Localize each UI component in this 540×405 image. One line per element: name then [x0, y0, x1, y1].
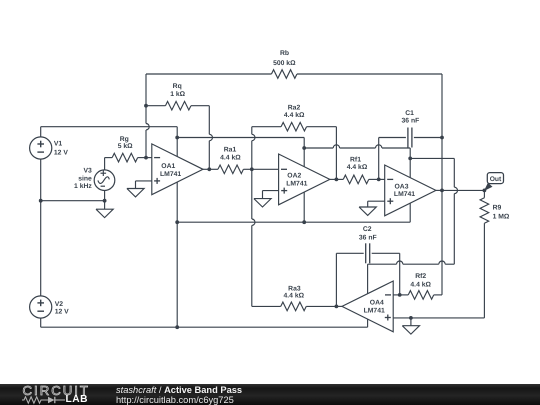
svg-text:Rf1: Rf1 [350, 156, 361, 163]
node V1-V2 junction [39, 199, 43, 203]
wire Ra2 right [307, 127, 337, 180]
svg-text:12 V: 12 V [55, 309, 69, 316]
svg-text:OA4: OA4 [370, 300, 384, 307]
hop V+ vertical over OA3 output [454, 187, 457, 193]
resistor Ra2 [281, 122, 307, 131]
svg-text:V3: V3 [83, 167, 92, 174]
wire to OA3 - input [379, 178, 385, 180]
wire V1 corner down [176, 127, 178, 138]
resistor Rf2 [408, 291, 434, 300]
wire Ra1 right [243, 168, 251, 170]
label V2 [55, 301, 69, 316]
label OA2 [286, 173, 307, 188]
hop wire B over C1 vertical [376, 145, 382, 148]
node OA2 output [335, 178, 339, 182]
footer bar [0, 384, 540, 405]
op-amp OA2 [279, 154, 330, 205]
hop Ra2 vertical over wire A [252, 134, 255, 140]
ground OA1 [127, 189, 144, 197]
resistor Rb [271, 70, 297, 79]
resistor R9 [480, 198, 489, 224]
wire C1 left vertical [379, 138, 406, 180]
svg-text:Rq: Rq [173, 83, 182, 90]
svg-text:36 nF: 36 nF [359, 234, 377, 241]
wire OA3 output [436, 189, 485, 191]
svg-text:Rg: Rg [120, 136, 129, 143]
hop V+ run over Rf2 vertical [439, 261, 445, 264]
node OA2 inverting input [250, 167, 254, 171]
label Rf2 [410, 273, 431, 289]
svg-text:C1: C1 [405, 110, 414, 117]
svg-text:36 nF: 36 nF [402, 118, 420, 125]
wire OA3 V+ stub [409, 158, 411, 177]
svg-text:LM741: LM741 [394, 191, 415, 198]
wire OA2 + input to ground [263, 191, 279, 199]
wire B corner down [409, 148, 411, 158]
node OA1 inverting input [144, 156, 148, 160]
voltage source V1 [30, 137, 52, 159]
OA4 input signs [385, 295, 391, 321]
svg-text:5 kΩ: 5 kΩ [118, 143, 133, 150]
wire top rail (Rb net) [146, 73, 442, 75]
wire R9 bottom [483, 223, 485, 318]
svg-text:Ra2: Ra2 [288, 104, 301, 111]
node Out [483, 189, 487, 193]
wire Ra3 right [306, 305, 336, 307]
label Ra1 [220, 147, 241, 162]
wire OA3 + input to ground [368, 201, 385, 207]
label Rg [118, 136, 133, 150]
svg-text:LM741: LM741 [364, 308, 385, 315]
svg-text:4.4 kΩ: 4.4 kΩ [220, 155, 241, 162]
ground OA4 [402, 326, 419, 334]
svg-text:Ra1: Ra1 [224, 147, 237, 154]
wire Ra2 left vertical [251, 127, 253, 170]
wire V+ right vertical [453, 158, 455, 264]
wire Rf2 right [434, 294, 442, 296]
svg-text:LM741: LM741 [160, 171, 181, 178]
label OA4 [364, 300, 385, 315]
svg-text:4.4 kΩ: 4.4 kΩ [284, 112, 305, 119]
node OA3 inverting input [377, 178, 381, 182]
wire Rq right vertical [208, 106, 210, 170]
voltage source V2 [30, 296, 52, 318]
svg-text:4.4 kΩ: 4.4 kΩ [284, 292, 305, 299]
svg-text:OA3: OA3 [395, 184, 409, 191]
label V3 [74, 167, 92, 190]
wire OA2 V- stub [303, 192, 305, 222]
op-amp OA4 [342, 281, 393, 332]
label Ra2 [284, 104, 305, 119]
wire OA1 V+ stub [176, 138, 178, 157]
wire OA4 V- stub [367, 319, 369, 327]
wire to OA2 - input [252, 168, 279, 170]
svg-text:Rb: Rb [280, 50, 289, 57]
label OA1 [160, 163, 181, 178]
resistor Ra3 [281, 302, 307, 311]
hop wire B over Ra2 vertical [333, 145, 339, 148]
svg-text:sine: sine [78, 175, 92, 182]
label Ra3 [284, 285, 305, 299]
node OA1 V+ [175, 136, 179, 140]
wire C2 right [372, 253, 400, 295]
wire OA2- node down [251, 169, 253, 306]
wire OA4 + input [393, 317, 411, 319]
svg-text:R9: R9 [493, 205, 502, 212]
wire R9 top [483, 190, 485, 197]
wire Ra3 left [252, 305, 281, 307]
node OA4 inverting input [398, 293, 402, 297]
resistor Rf1 [343, 175, 369, 184]
wire V+ bottom run [368, 263, 455, 265]
label R9 [493, 205, 510, 221]
wire OA3 V- stub [304, 203, 410, 222]
node OA2 V- on bus [302, 220, 306, 224]
wire OA4 - input [393, 294, 408, 296]
capacitor C1 [408, 128, 412, 148]
wire V- bus left [177, 221, 304, 223]
OA2 input signs [281, 169, 287, 193]
ground OA2 [254, 199, 271, 207]
ground OA3 [359, 207, 376, 215]
wire OA1 output [203, 168, 218, 170]
node OA1 output [207, 167, 211, 171]
footer line 1 [116, 385, 242, 395]
svg-text:Rf2: Rf2 [415, 273, 426, 280]
wire right vertical x442 [441, 74, 443, 295]
wire Ra2 top left [252, 126, 281, 128]
ground V3 [96, 209, 113, 217]
svg-text:LM741: LM741 [286, 180, 307, 187]
wire left vertical x146 [145, 74, 147, 158]
CircuitLab logo resistor-diode glyph [22, 395, 68, 405]
node V3 ground [103, 199, 107, 203]
wire V2 bottom rail [41, 318, 368, 327]
node OA3 V+ [408, 157, 412, 161]
node OA4 output [335, 305, 339, 309]
hop V+ run over C2 vertical [397, 261, 403, 264]
wire OA4 V+ stub [367, 264, 369, 294]
OA1 input signs [154, 158, 160, 184]
svg-text:V2: V2 [55, 301, 64, 308]
wire C (V+ rail OA3-OA4) [410, 157, 454, 159]
wire OA4 output [336, 305, 342, 307]
label Rq [170, 83, 185, 98]
node C1 right [440, 136, 444, 140]
node OA1 V- on bus [175, 220, 179, 224]
footer line 2 [116, 395, 234, 405]
label Rf1 [347, 156, 368, 171]
svg-text:1 kΩ: 1 kΩ [170, 91, 185, 98]
resistor Ra1 [218, 165, 244, 174]
node OA4 + ground [409, 316, 413, 320]
hop OA2- vertical over V- bus [252, 219, 255, 225]
wire A (V+ rail OA1-OA2) [177, 137, 304, 139]
flag Out [484, 173, 504, 191]
svg-text:Ra3: Ra3 [288, 285, 301, 292]
wire V1 top [41, 127, 178, 137]
resistor Rg [112, 153, 137, 162]
hop left vertical over V1 wire [146, 124, 149, 130]
wire V1 bottom to V2 top [40, 159, 42, 296]
svg-text:4.4 kΩ: 4.4 kΩ [347, 164, 368, 171]
wire supplies link [41, 200, 105, 202]
svg-text:1 MΩ: 1 MΩ [493, 214, 510, 221]
wire Rq leads [146, 105, 209, 107]
svg-text:OA1: OA1 [161, 163, 175, 170]
voltage source V3 sine [94, 170, 115, 191]
op-amp OA1 [152, 144, 203, 195]
node Rq left [144, 104, 148, 108]
wire C2 left [336, 253, 363, 306]
svg-text:1 kHz: 1 kHz [74, 183, 92, 190]
svg-text:OA2: OA2 [287, 173, 301, 180]
wire V3 ground stub [104, 201, 106, 210]
node bottom rail junction [175, 325, 179, 329]
svg-text:C2: C2 [363, 226, 372, 233]
svg-text:Out: Out [490, 176, 502, 183]
node OA3 output [440, 189, 444, 193]
wire OA4 ground stub [410, 318, 412, 326]
node OA2 V+ [302, 146, 306, 150]
capacitor C2 [366, 243, 370, 263]
wire Rg right [138, 157, 146, 159]
wire OA2 output [330, 178, 343, 180]
wire C1 right [414, 137, 442, 139]
svg-text:4.4 kΩ: 4.4 kΩ [410, 282, 431, 289]
wire OA2 V+ stub [303, 148, 305, 167]
wire OA1 V- stub [176, 182, 178, 222]
resistor Rq [165, 101, 191, 110]
CircuitLab logo wordmark [23, 383, 90, 398]
wire V3 top [105, 158, 113, 170]
wire V- bus down to bottom rail [176, 222, 178, 327]
svg-text:12 V: 12 V [54, 149, 68, 156]
CircuitLab logo LAB text [66, 394, 88, 405]
wire V3 bottom [104, 190, 106, 201]
op-amp OA3 [385, 165, 436, 216]
hop Rq vertical over wire A [209, 134, 212, 140]
label C1 [402, 110, 420, 125]
wire B (V+ rail OA2-OA3) [304, 147, 410, 149]
label C2 [359, 226, 377, 241]
wire OA1 - input [146, 157, 152, 159]
wire Rf1 right [369, 178, 379, 180]
label Rb [273, 50, 296, 67]
OA3 input signs [387, 179, 393, 204]
wire OA1 + input to ground [136, 181, 152, 189]
svg-text:V1: V1 [54, 141, 63, 148]
label V1 [54, 141, 68, 157]
label OA3 [394, 184, 415, 199]
svg-text:500 kΩ: 500 kΩ [273, 60, 296, 67]
wire A corner down [303, 138, 305, 149]
wire OA4 + to R9 [411, 317, 485, 319]
